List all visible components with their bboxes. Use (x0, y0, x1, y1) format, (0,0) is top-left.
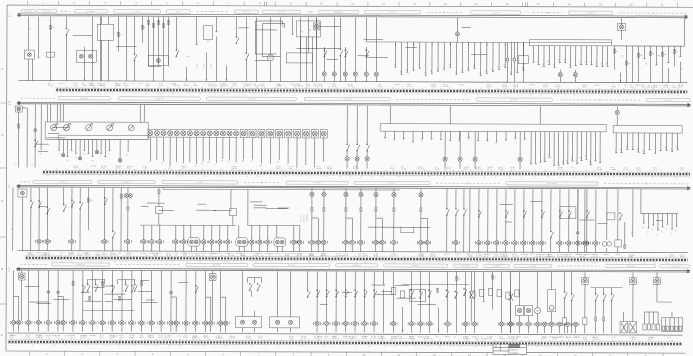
svg-text:VT K5: VT K5 (166, 253, 170, 255)
svg-text:E1 2.5: E1 2.5 (637, 85, 642, 87)
svg-text:73: 73 (305, 93, 307, 95)
svg-text:55: 55 (308, 255, 310, 257)
svg-text:WH X4: WH X4 (560, 337, 565, 339)
svg-text:16: 16 (295, 255, 297, 257)
X4 comb pin wire 1 (615, 133, 617, 153)
component b4-171 (170, 291, 172, 293)
band4 mid branch wire 3 (371, 284, 385, 286)
svg-text:VT: VT (58, 153, 60, 155)
svg-text:71: 71 (61, 175, 63, 177)
lamp circuit b4-58 (55, 271, 67, 332)
band1 fusebox pin wire 12 (591, 46, 593, 65)
switch tree 1 (87, 279, 105, 300)
svg-text:K2 E9: K2 E9 (146, 85, 150, 87)
wire b1r-668 (667, 46, 669, 83)
svg-text:X4 E1: X4 E1 (632, 337, 636, 339)
svg-text:70: 70 (315, 93, 317, 95)
svg-text:89: 89 (598, 177, 600, 179)
svg-text:40: 40 (241, 261, 243, 263)
svg-text:C2: C2 (495, 142, 497, 144)
band3 right comb rail (641, 212, 678, 214)
svg-text:57: 57 (144, 169, 146, 171)
svg-text:59: 59 (662, 177, 664, 179)
svg-text:WH: WH (473, 65, 475, 67)
svg-text:56: 56 (104, 87, 106, 89)
wire b1r-674 (673, 46, 678, 66)
svg-text:97: 97 (294, 87, 296, 89)
svg-text:1.0: 1.0 (214, 83, 216, 85)
svg-text:58R 58b: 58R 58b (90, 335, 96, 337)
band2 left branch wire 2 (38, 150, 48, 152)
svg-text:26: 26 (99, 93, 101, 95)
svg-text:44: 44 (179, 169, 181, 171)
svg-text:98: 98 (30, 261, 32, 263)
svg-text:36: 36 (134, 345, 136, 347)
lamp b3 rail 160 (156, 225, 163, 251)
svg-text:90: 90 (484, 346, 486, 348)
svg-text:12: 12 (219, 176, 221, 178)
svg-text:10: 10 (677, 263, 679, 265)
svg-text:4.0: 4.0 (510, 71, 512, 73)
svg-text:69: 69 (518, 94, 520, 96)
svg-text:15: 15 (671, 233, 673, 235)
svg-text:47: 47 (99, 175, 101, 177)
svg-text:30a: 30a (436, 336, 439, 338)
svg-text:F7 15: F7 15 (46, 337, 50, 339)
switch S b3-104 (104, 197, 107, 205)
svg-text:65: 65 (317, 87, 319, 89)
band1 terminal strip lower numbers (60, 93, 679, 97)
svg-text:27: 27 (124, 169, 126, 171)
svg-text:92: 92 (520, 340, 522, 342)
svg-text:15: 15 (632, 146, 634, 148)
svg-text:WH: WH (83, 154, 85, 156)
X3 comb pin wire 12 (581, 132, 583, 161)
switch b4m-317 (317, 290, 320, 298)
border frame left line (6, 5, 7, 351)
svg-text:82: 82 (318, 339, 320, 341)
rail comb wire 3 (407, 42, 409, 72)
svg-text:59: 59 (116, 255, 118, 257)
svg-text:S3 31: S3 31 (276, 168, 280, 170)
title block (493, 344, 527, 355)
svg-text:E1 X: E1 X (668, 337, 671, 339)
band1 right rail (612, 45, 684, 47)
svg-text:GY: GY (631, 232, 633, 234)
svg-text:68: 68 (662, 347, 664, 349)
svg-text:X4 GN: X4 GN (208, 83, 213, 85)
band2 left branch wire 4 (52, 127, 69, 129)
svg-text:92: 92 (629, 263, 631, 265)
svg-text:BU H7: BU H7 (378, 86, 383, 88)
svg-text:S3: S3 (8, 185, 10, 187)
svg-text:61: 61 (595, 263, 597, 265)
component b4-112 (112, 285, 115, 293)
svg-text:M3 S14: M3 S14 (301, 336, 306, 338)
svg-text:47: 47 (504, 94, 506, 96)
svg-text:89: 89 (306, 87, 308, 89)
svg-text:27: 27 (573, 256, 575, 258)
wire b2 x41 (39, 105, 42, 156)
svg-text:88: 88 (484, 340, 486, 342)
svg-text:K2: K2 (301, 31, 303, 33)
svg-text:V4: V4 (444, 12, 446, 14)
lamp b4rr-576 (573, 322, 577, 326)
svg-text:GY K2: GY K2 (291, 253, 296, 255)
svg-text:55: 55 (291, 169, 293, 171)
svg-text:23: 23 (227, 93, 229, 95)
cluster supply wires (48, 105, 145, 123)
component box 618 (615, 189, 622, 252)
svg-text:56: 56 (157, 93, 159, 95)
wire b2 x18 lower (15, 112, 20, 168)
boxed lamp b4 633 (630, 272, 637, 312)
band1 header strip (22, 9, 689, 14)
svg-text:31: 31 (246, 176, 248, 178)
svg-text:2.5: 2.5 (645, 63, 647, 65)
svg-text:K5: K5 (430, 140, 432, 142)
lamp circuit b4-102 (99, 271, 106, 332)
wire b1-316 (315, 17, 317, 81)
svg-text:60: 60 (64, 345, 66, 347)
svg-text:94: 94 (652, 177, 654, 179)
svg-text:49: 49 (412, 88, 414, 90)
boxed indicator 279 (276, 129, 283, 160)
band4 terminal strip numbers (10, 338, 672, 342)
band3 upper rail riser (162, 187, 164, 189)
band3 label row (28, 251, 685, 258)
svg-text:15a GY: 15a GY (582, 85, 587, 87)
svg-text:14: 14 (599, 340, 601, 342)
svg-text:94: 94 (107, 169, 109, 171)
band1 fusebox pin wire 5 (554, 46, 556, 68)
X3 pin 16 (524, 132, 526, 139)
svg-text:99: 99 (326, 93, 328, 95)
lamp b4rr-538 (535, 322, 539, 326)
svg-text:13: 13 (308, 339, 310, 341)
rail comb wire 21 (516, 42, 518, 72)
switch S b3-72 (71, 200, 74, 208)
lamp circuit b3 mid 346 (342, 189, 355, 252)
lamp b3 rail 260 (256, 225, 263, 251)
svg-text:GY YE: GY YE (484, 254, 489, 256)
band2 left branch wire 3 (36, 143, 49, 145)
svg-text:X12: X12 (576, 159, 578, 162)
warning lamp row rail lower (147, 136, 238, 138)
svg-text:1: 1 (575, 262, 576, 264)
svg-text:11: 11 (531, 94, 533, 96)
lamp pair 128 (124, 187, 132, 251)
wire b1-300 (300, 17, 303, 53)
svg-text:31 X: 31 X (434, 167, 437, 169)
svg-text:1.0: 1.0 (467, 183, 469, 185)
svg-text:23: 23 (561, 340, 563, 342)
svg-text:S14: S14 (676, 146, 678, 149)
lamp circuit b4r-394 (390, 272, 397, 333)
b3 right comb pin 7 (671, 214, 673, 230)
X3 comb pin wire 9 (567, 132, 569, 164)
svg-text:63: 63 (355, 170, 357, 172)
svg-text:92: 92 (483, 176, 485, 178)
lamp circuit b3r-560 (556, 189, 563, 252)
svg-text:F12 58: F12 58 (318, 336, 323, 338)
svg-text:73: 73 (510, 262, 512, 264)
svg-text:YE 30a: YE 30a (443, 86, 448, 88)
svg-text:30: 30 (485, 71, 487, 73)
svg-text:15: 15 (580, 61, 582, 63)
svg-text:M: M (537, 310, 539, 313)
switch b3r-587 (586, 210, 589, 218)
svg-text:46: 46 (573, 170, 575, 172)
svg-text:39: 39 (164, 169, 166, 171)
band4 left branch wire 7 (146, 299, 155, 301)
lamp circuit b3r-596 (592, 189, 599, 252)
X3 comb pin wire 16 (599, 132, 601, 163)
svg-text:18: 18 (188, 93, 190, 95)
boxed indicator 296 (293, 129, 300, 167)
svg-text:26: 26 (597, 347, 599, 349)
svg-text:14: 14 (220, 339, 222, 341)
svg-text:58: 58 (392, 88, 394, 90)
svg-text:F7 2.5: F7 2.5 (524, 254, 528, 256)
svg-text:30a: 30a (91, 160, 94, 162)
svg-text:X V4 K2: X V4 K2 (134, 11, 140, 13)
svg-text:31b RD 31: 31b RD 31 (24, 11, 32, 13)
svg-text:K2 WH: K2 WH (663, 87, 668, 89)
svg-text:4.0 58L: 4.0 58L (285, 253, 290, 255)
band3 bus line 15 (17, 187, 690, 189)
svg-text:H7: H7 (227, 161, 229, 163)
lamp circuit b3 mid 376 (372, 189, 385, 252)
svg-text:S14: S14 (449, 63, 451, 66)
svg-text:93: 93 (85, 345, 87, 347)
svg-text:41: 41 (214, 87, 216, 89)
lamp circuit b3-72 (68, 188, 75, 251)
svg-text:54: 54 (215, 345, 217, 347)
svg-text:93: 93 (121, 175, 123, 177)
svg-text:VT: VT (612, 84, 614, 86)
svg-text:31b C2: 31b C2 (73, 165, 78, 167)
svg-text:F7: F7 (286, 165, 288, 167)
component b4-48 (47, 291, 49, 293)
svg-text:45: 45 (204, 176, 206, 178)
svg-text:82: 82 (365, 170, 367, 172)
svg-text:K5: K5 (666, 228, 668, 230)
flasher box 2 (629, 321, 637, 333)
svg-text:H2 15: H2 15 (101, 167, 105, 169)
svg-text:51: 51 (87, 261, 89, 263)
svg-text:17: 17 (523, 88, 525, 90)
wire b4r-493 (492, 272, 497, 310)
svg-text:S14: S14 (75, 157, 78, 159)
svg-text:31: 31 (418, 94, 420, 96)
wire b1-84 (84, 47, 85, 81)
lamp b4rr-520 (517, 322, 521, 326)
wire b1r-650 (649, 46, 654, 83)
wire b3r-551 (550, 189, 553, 252)
lamp circuit b4m-365 (361, 272, 368, 333)
svg-text:80: 80 (154, 345, 156, 347)
band3 branch wire 1 (159, 209, 174, 211)
band1 branch wire 4 (73, 35, 93, 37)
lamp circuit b3r-488 (484, 189, 491, 252)
band4 left branch wire 16 (138, 290, 152, 292)
svg-text:YE GY: YE GY (55, 337, 60, 339)
band4 left branch wire 14 (105, 301, 112, 303)
svg-text:31b: 31b (52, 27, 55, 29)
svg-text:30 VT: 30 VT (39, 335, 43, 337)
svg-text:1.5 VT: 1.5 VT (332, 336, 337, 338)
svg-text:81: 81 (648, 340, 650, 342)
lamp circuit b4-186 (183, 271, 190, 332)
band3 right comb feed (640, 189, 642, 214)
wire b3 left edge (12, 188, 14, 251)
lamp b3 rail 204 (200, 225, 207, 251)
comb1 pin 658.5 (656, 312, 659, 330)
svg-text:23: 23 (210, 169, 212, 171)
svg-text:18: 18 (404, 94, 406, 96)
svg-text:1.5 58R: 1.5 58R (611, 169, 617, 171)
rail comb wire 18 (498, 42, 500, 69)
rail comb wire 5 (419, 42, 421, 68)
nested loop bracket 1 (255, 21, 282, 54)
band4 left branch wire 2 (81, 292, 90, 294)
switch S b3-39 (39, 200, 42, 208)
svg-text:99: 99 (353, 87, 355, 89)
rail comb wire 7 (431, 42, 433, 73)
svg-text:K2: K2 (516, 69, 518, 71)
svg-text:1.5 GN: 1.5 GN (124, 85, 129, 87)
svg-text:31: 31 (264, 87, 266, 89)
band4 mid component row (391, 287, 519, 299)
band3 branch wire 4 (198, 203, 206, 205)
rail comb wire 2 (401, 42, 403, 74)
band4 left branch wire 8 (113, 299, 131, 301)
svg-text:K5 15: K5 15 (465, 336, 469, 338)
svg-text:54: 54 (87, 169, 89, 171)
svg-text:22: 22 (298, 176, 300, 178)
svg-text:70: 70 (144, 339, 146, 341)
svg-text:31b E9: 31b E9 (431, 84, 436, 86)
band1 terminal strip numbers (58, 86, 679, 90)
svg-text:48: 48 (80, 339, 82, 341)
instrument cluster connector rail (58, 135, 148, 140)
svg-text:2.5 K5: 2.5 K5 (557, 254, 562, 256)
warning lamp 8 (194, 131, 199, 165)
boxed indicator 243 (240, 129, 247, 159)
lamp circuit b3r-533 (529, 189, 536, 252)
lamp b4rr-560 (557, 322, 561, 326)
svg-text:76: 76 (481, 256, 483, 258)
band4 mid branch wire 6 (342, 291, 352, 293)
svg-text:X4 H7: X4 H7 (119, 335, 123, 337)
svg-text:58b 30a: 58b 30a (112, 335, 118, 337)
svg-text:C1 0.5: C1 0.5 (165, 337, 170, 339)
svg-text:2.5: 2.5 (295, 169, 297, 171)
connector strip X3 (380, 124, 606, 132)
warning lamp 13 (227, 131, 232, 160)
svg-text:42: 42 (625, 347, 627, 349)
wire b1-280 (280, 17, 285, 81)
svg-text:56b S14 15a: 56b S14 15a (547, 183, 556, 185)
svg-text:19: 19 (661, 88, 663, 90)
cluster pin 3 (67, 139, 69, 156)
switch tree 2 (118, 279, 138, 300)
svg-text:1.5: 1.5 (498, 66, 500, 68)
svg-text:85: 85 (199, 339, 201, 341)
svg-text:M3: M3 (406, 69, 408, 71)
svg-text:V4: V4 (61, 252, 63, 254)
boxed lamp b4 left 213 (209, 271, 216, 321)
band1 rail y47 (296, 47, 340, 49)
wire b3-121 (120, 188, 125, 251)
svg-text:58L 56a: 58L 56a (48, 85, 54, 87)
svg-text:E9 BK: E9 BK (194, 85, 198, 87)
svg-text:C1 E9: C1 E9 (636, 167, 640, 169)
warning lamp 11 (214, 131, 219, 163)
band1 bus line 15 (18, 16, 688, 18)
svg-text:14: 14 (431, 340, 433, 342)
svg-text:H2 X: H2 X (214, 85, 217, 87)
comb1 pin 649.5 (647, 312, 650, 330)
band3 branch wire 10 (266, 208, 288, 210)
svg-text:31: 31 (453, 170, 455, 172)
svg-text:1.0 RT: 1.0 RT (203, 64, 205, 69)
lamp circuit b4m-346 (342, 272, 349, 333)
svg-text:30a 30 F12: 30a 30 F12 (77, 264, 85, 266)
svg-text:X12 YE: X12 YE (653, 85, 658, 87)
wire b3-88 (87, 188, 93, 230)
X4 comb pin wire 4 (632, 133, 634, 150)
svg-text:68: 68 (225, 345, 227, 347)
svg-text:30: 30 (368, 346, 370, 348)
svg-text:35: 35 (380, 87, 382, 89)
switch circuit b4 565 (563, 272, 568, 333)
svg-text:BU 2.5: BU 2.5 (630, 86, 635, 88)
switch b3r-506 (505, 210, 508, 218)
svg-text:49: 49 (432, 88, 434, 90)
svg-text:66: 66 (639, 94, 641, 96)
X3 comb pin wire 1 (530, 132, 532, 164)
svg-text:M3 GN: M3 GN (139, 337, 144, 339)
svg-text:8: 8 (72, 261, 73, 263)
svg-text:10: 10 (12, 345, 14, 347)
svg-text:2.5 30 WH: 2.5 30 WH (492, 12, 500, 14)
band 4 bottom bus (8, 333, 683, 335)
b3 right comb pin 3 (652, 214, 654, 226)
svg-text:VT: VT (212, 11, 214, 13)
switch X circuit 471 (469, 272, 474, 322)
svg-text:0.5 SW: 0.5 SW (196, 63, 198, 69)
svg-text:72: 72 (654, 95, 656, 97)
lamp circuit b4m-355 (352, 272, 359, 333)
svg-text:BU GY: BU GY (680, 167, 685, 169)
boxed indicator 323 (320, 130, 327, 162)
wire b1-246 (246, 17, 249, 81)
band1 branch wire 11 (148, 65, 161, 67)
svg-text:91: 91 (351, 94, 353, 96)
band3 header strip (20, 180, 690, 185)
svg-text:26: 26 (133, 339, 135, 341)
svg-text:VT 30a: VT 30a (82, 85, 87, 87)
band4 left branch wire 1 (94, 287, 105, 289)
svg-text:90: 90 (355, 262, 357, 264)
band2 terminal strip lower numbers (47, 175, 677, 179)
band1 branch wire 9 (255, 59, 269, 61)
cluster pin 7 (83, 140, 85, 151)
svg-text:H7: H7 (250, 161, 252, 163)
svg-text:50: 50 (594, 170, 596, 172)
